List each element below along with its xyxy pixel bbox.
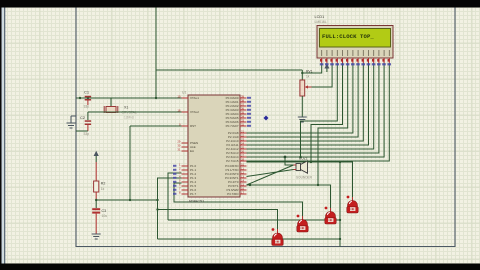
svg-text:SOUNDER: SOUNDER (296, 176, 313, 180)
wire D3 (247, 63, 369, 145)
wire: diagonal to sounder pin (crossing pair) (247, 165, 294, 185)
junction RW drop (310, 161, 312, 163)
wire: rail y=162 (buzzer / LED D4 / ground drop) (247, 162, 353, 197)
letterbox bars (0, 0, 480, 8)
MCU left blue net labels (172, 165, 176, 195)
svg-text:19: 19 (177, 94, 181, 98)
wire VEE (312, 63, 333, 87)
resistor R2 (94, 162, 106, 200)
wire: P1.3 loop left x=157.5 (158, 178, 182, 239)
svg-text:P2.7/A15: P2.7/A15 (226, 159, 239, 163)
MCU left pin numbers (red) (177, 94, 181, 194)
junction VSS/pot (301, 72, 303, 74)
LCD pin name marks (322, 50, 390, 56)
svg-text:P3.7/RD: P3.7/RD (227, 192, 239, 196)
wire: drop to bottom rail x=340 (339, 162, 341, 247)
svg-text:17: 17 (241, 190, 245, 194)
svg-text:P0.7/AD7: P0.7/AD7 (226, 124, 239, 128)
junction RS drop (299, 156, 301, 158)
svg-text:1k: 1k (101, 187, 105, 191)
svg-text:EA: EA (190, 149, 194, 153)
wire VSS (302, 63, 321, 73)
wire: rail y=220 to x=340 (168, 219, 340, 221)
power +5V arrow above R2 (94, 151, 99, 162)
svg-text:33p: 33p (84, 105, 90, 109)
MCU right pin numbers (red) (241, 94, 245, 194)
MCU right pin stubs (240, 98, 247, 194)
capacitor C1 (84, 89, 92, 108)
wire: XTAL2 net y=112 (88, 111, 182, 113)
junction E drop (317, 184, 319, 186)
wire D4 (247, 63, 374, 149)
LED D1 (red indicator) (272, 228, 284, 245)
LED D2 (297, 215, 309, 232)
svg-text:LCD1: LCD1 (315, 15, 325, 19)
capacitor C3 (electrolytic) (92, 200, 107, 234)
svg-text:C3: C3 (102, 209, 107, 213)
junction node (87, 97, 89, 99)
wire: RST to MCU y=126 (130, 125, 182, 127)
svg-text:X1: X1 (124, 106, 128, 110)
window left edge strip (0, 0, 2, 270)
wire: C2 to ground rail y=131 (76, 130, 88, 132)
sounder BUZ1 (294, 157, 313, 180)
microcontroller U1 AT89C51 (182, 91, 240, 204)
svg-text:U1: U1 (182, 91, 186, 95)
LCD blue net labels (320, 63, 391, 65)
wire: rail y=209.5 feeding LED D1 (158, 210, 278, 230)
wire: ground/top rail vertical x=156 (155, 7, 157, 98)
svg-text:AT89C51: AT89C51 (189, 200, 205, 204)
crystal X1 (104, 98, 137, 120)
wire RS (301, 63, 338, 157)
wire: rail y=185 feeding LED D3 (247, 185, 331, 208)
LED D4 (347, 196, 359, 213)
wire D7 (247, 63, 390, 161)
wire D2 (247, 63, 364, 141)
svg-text:31: 31 (177, 147, 181, 151)
LCD LCD1 LM016L (315, 15, 394, 65)
svg-text:RV1: RV1 (306, 70, 313, 74)
sheet border (dark blue frame) (76, 7, 455, 247)
junction dots on XTAL1 net (79, 97, 81, 99)
svg-text:12MHz: 12MHz (124, 116, 135, 120)
svg-text:FULL:CLOCK TOP_: FULL:CLOCK TOP_ (322, 33, 374, 40)
svg-text:RST: RST (190, 124, 196, 128)
ground (below RV1) (298, 117, 307, 122)
wire: buzzer stub from D6 rail (285, 157, 294, 165)
MCU left inside pin names (190, 96, 199, 196)
wire RW (311, 63, 343, 162)
LCD pin stubs (red) (322, 58, 390, 63)
svg-text:XTAL2: XTAL2 (190, 110, 199, 114)
svg-text:XTAL1: XTAL1 (190, 96, 199, 100)
wire: P1.2 loop left x=168 (168, 173, 182, 220)
wire D0 (247, 63, 353, 133)
power arrow at VDD (324, 64, 329, 69)
wire D5 (247, 63, 379, 153)
svg-text:32: 32 (241, 122, 245, 126)
wire: P1.4 loop x=174, rail y=202 feeding LED D2 (174, 183, 303, 216)
svg-text:28: 28 (241, 157, 245, 161)
node marker (blue diamond) (264, 116, 269, 121)
wire: diagonal to sounder pin 2 (247, 170, 294, 177)
potentiometer RV1 (300, 70, 313, 117)
wire: RST node to long vertical, y=200 (96, 199, 157, 201)
capacitor C2 (80, 112, 91, 136)
svg-text:10u: 10u (102, 214, 108, 218)
svg-text:P1.7: P1.7 (190, 192, 197, 196)
svg-text:33p: 33p (84, 132, 90, 136)
wire: RST vertical x=130 (129, 126, 131, 200)
wire D6 (247, 63, 385, 157)
ground (below C3) (92, 234, 101, 239)
svg-text:C1: C1 (84, 89, 90, 94)
wire E (318, 63, 348, 185)
wire: rail y=239 to x=340 (158, 238, 341, 240)
MCU right blue net labels (247, 97, 251, 127)
ground (left of crystal caps) (67, 116, 77, 128)
LCD pin numbers (red marks) (320, 59, 390, 62)
LCD data/control rails to MCU (247, 63, 390, 185)
MCU right inside pin names (225, 96, 239, 196)
wire D1 (247, 63, 359, 137)
svg-text:LM016L: LM016L (315, 20, 327, 24)
wire: rail to LCD contrast pot, y=70 (156, 69, 302, 71)
wire: XTAL1 net y=98 (76, 97, 182, 99)
svg-text:18: 18 (177, 108, 181, 112)
svg-text:R2: R2 (101, 182, 106, 186)
svg-text:1k: 1k (306, 75, 310, 79)
svg-text:C2: C2 (80, 115, 86, 120)
wire VDD (326, 63, 328, 72)
MCU left pin stubs (182, 98, 189, 194)
LED D3 (325, 207, 337, 224)
